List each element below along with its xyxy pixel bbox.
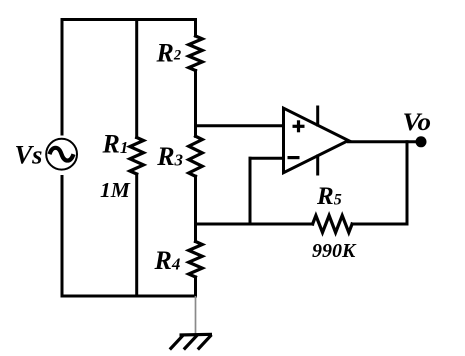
svg-text:Vo: Vo bbox=[403, 109, 432, 136]
svg-text:Vs: Vs bbox=[15, 140, 43, 169]
svg-text:1M: 1M bbox=[100, 178, 131, 202]
svg-text:990K: 990K bbox=[312, 240, 357, 262]
